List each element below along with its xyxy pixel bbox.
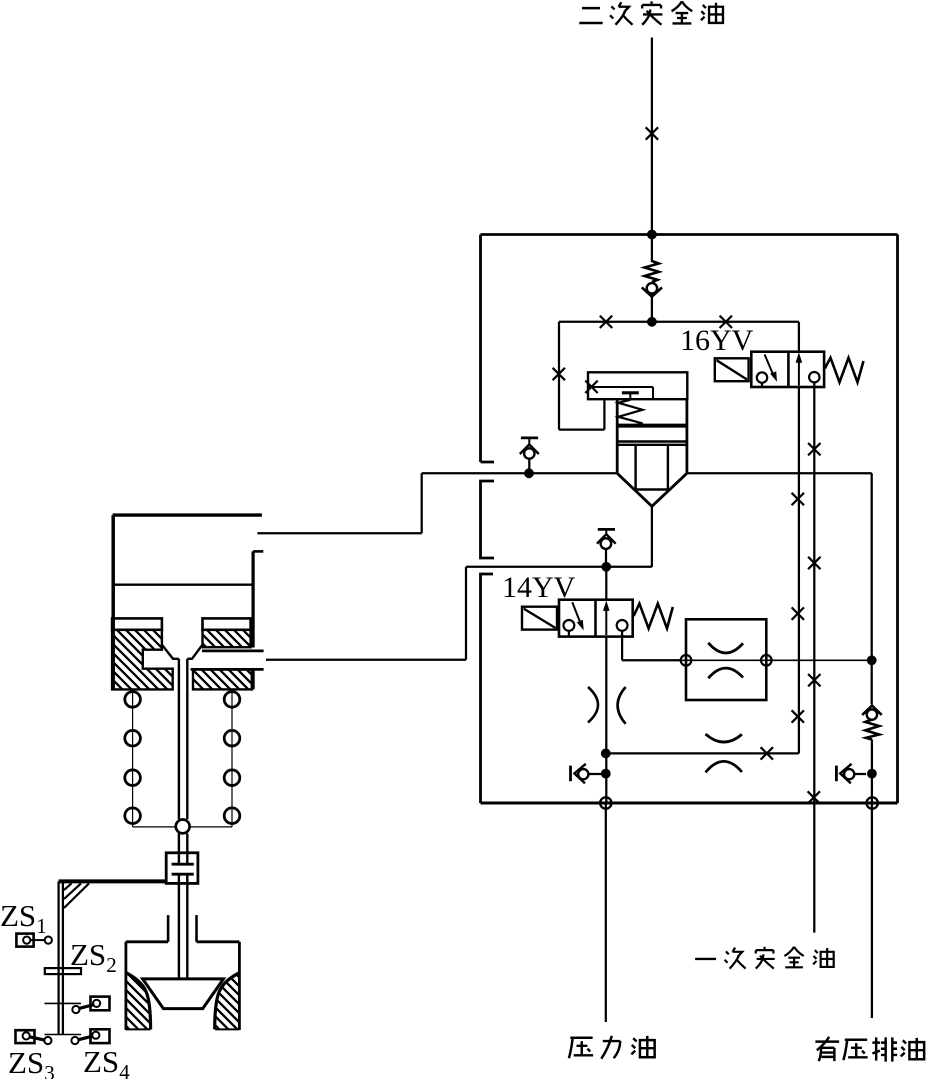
piston rod below guide piston: [179, 874, 187, 979]
piston hatched block right upper: [203, 630, 251, 647]
limit switch ZS4 roller: [92, 1032, 99, 1039]
closed port X b1: [808, 443, 820, 455]
servomotor right wall tick: [253, 550, 263, 553]
piston rod lower: [179, 834, 187, 865]
node junction lower header: [601, 562, 611, 572]
test point TP3 seat: [574, 764, 585, 784]
test point TP1 stem: [528, 438, 530, 444]
main valve body left wall: [616, 399, 619, 473]
damping orifice upper arc: [706, 734, 742, 742]
wire CV1 to pilot header: [651, 297, 653, 322]
test point TP1 seat: [520, 445, 539, 455]
wire right drain riser: [871, 473, 873, 704]
rod guide piston top bar: [172, 863, 194, 866]
piston hatched block right lower: [193, 669, 252, 689]
node junction at right drain riser: [867, 655, 877, 665]
relief check valve spring: [865, 720, 879, 740]
wire pressure oil down: [605, 803, 607, 1022]
striker tick bottom: [45, 1034, 82, 1036]
cylinder lower pipe: [266, 567, 652, 660]
closed port X a2: [792, 607, 804, 619]
servomotor right wall upper: [252, 551, 255, 647]
test point TP1 bar: [521, 436, 538, 439]
test point TP2 ball: [601, 538, 612, 549]
valve body 14YV: [559, 600, 633, 637]
spring coils right: [224, 692, 240, 824]
distributor plug: [143, 979, 224, 1009]
pilot valve spring seat T-bar: [622, 391, 639, 394]
svg-text:16YV: 16YV: [680, 324, 754, 357]
16YV right position arrow: [796, 352, 803, 385]
closed port X a3: [792, 710, 804, 722]
limit switch ZS1 body: [16, 934, 33, 947]
piston hatched block left: [112, 630, 173, 690]
striker tick middle: [45, 1002, 82, 1004]
16YV return spring: [825, 358, 864, 383]
spring guide wire left: [132, 689, 134, 827]
limit switch ZS1 tip roller: [45, 937, 52, 944]
label 压力油 (pressure oil): [569, 1036, 655, 1059]
16YV right position seat ball: [809, 372, 819, 382]
wire lower header to 14YV: [605, 567, 607, 600]
orifice lower arc: [708, 668, 743, 678]
servomotor top plate: [113, 513, 262, 516]
node junction damping branch: [601, 749, 611, 759]
wire node to check valve spring: [651, 235, 653, 263]
test point TP4 wire: [854, 773, 866, 775]
wire 16YV port A down: [798, 387, 800, 753]
spring coils left: [125, 692, 141, 824]
limit switch ZS3 roller: [23, 1032, 30, 1039]
wire secondary safety oil feed down: [651, 38, 653, 235]
test point TP1 wire: [528, 459, 530, 474]
bulkhead circle drain: [867, 797, 878, 808]
16YV left position seat ball: [757, 372, 767, 382]
distributor hatch bottom left: [126, 1028, 151, 1030]
orifice box through wire: [680, 659, 871, 661]
enclosure box left edge upper segment: [481, 235, 495, 463]
port channel upper line: [202, 650, 264, 653]
enclosure box bottom edge: [481, 802, 898, 805]
bulkhead circle pressure oil: [600, 797, 611, 808]
limit switch ZS3 tip roller: [44, 1037, 51, 1044]
port channel lower line: [191, 668, 264, 671]
distributor outer wall left: [125, 942, 128, 1030]
funnel left wall: [162, 645, 179, 659]
valve body 16YV: [751, 352, 824, 387]
limit switch ZS3 lever: [30, 1037, 46, 1040]
test point TP3 bar: [569, 766, 572, 782]
svg-text:ZS4: ZS4: [83, 1044, 130, 1079]
wire cone to lower header: [651, 506, 653, 567]
distributor seat curve left: [126, 973, 150, 1030]
label 一次安全油 (primary safety oil): [695, 947, 834, 969]
test point TP1 ball: [524, 448, 534, 458]
wire primary safety oil stub below box: [813, 803, 815, 933]
main valve piston band: [617, 424, 687, 428]
closed port X on feed wire: [646, 127, 658, 139]
distributor ledge right: [197, 940, 240, 943]
distributor ledge left: [126, 940, 168, 943]
test point TP3 ball: [578, 769, 588, 779]
distributor seat curve right: [215, 973, 239, 1030]
enclosure box top edge: [481, 233, 898, 236]
closed port X a1: [792, 493, 804, 505]
14YV right position seat ball: [617, 620, 628, 631]
piston rod upper: [179, 659, 187, 820]
main valve body right wall: [686, 399, 689, 473]
linkage ball joint: [176, 820, 190, 834]
enclosure box left edge lower segment: [481, 574, 494, 803]
orifice upper arc: [708, 643, 743, 653]
orifice left port circle: [681, 655, 692, 666]
closed port X b3: [808, 674, 820, 686]
node junction test point right: [867, 769, 877, 779]
14YV right position port stub: [621, 631, 623, 637]
cylinder upper pipe: [257, 473, 421, 533]
wire 16YV port B down: [813, 387, 815, 803]
enclosure box left edge bracket segment: [481, 481, 495, 558]
test point TP2 wire: [605, 549, 607, 567]
test point TP2 stem: [605, 529, 607, 534]
feedback lever: [59, 879, 167, 883]
pilot valve spring seat stem: [629, 393, 631, 399]
limit switch ZS4 tip roller: [71, 1037, 78, 1044]
pilot valve spring: [618, 400, 642, 426]
upper cross wire right part: [687, 472, 872, 474]
limit switch mid body: [91, 997, 110, 1011]
test point TP2 seat: [597, 534, 616, 544]
upper cross wire left part: [422, 472, 618, 474]
pilot valve top housing rectangle: [588, 372, 687, 399]
rod guide piston bottom bar: [172, 873, 194, 876]
label 有压排油 (pressurized drain): [815, 1037, 924, 1062]
node junction test point left: [601, 769, 611, 779]
limit switch mid roller: [93, 1000, 100, 1007]
test point TP2 bar: [598, 528, 615, 531]
limit switch ZS4 lever: [78, 1036, 93, 1040]
closed port X on header left: [600, 316, 612, 328]
wire relief to drain: [871, 740, 873, 1019]
spring of check valve CV1: [645, 261, 659, 282]
distributor seat hatch left: [126, 975, 150, 1030]
closed port X b4: [808, 791, 820, 803]
14YV return spring: [634, 604, 673, 629]
limit switch ZS3 body: [16, 1030, 35, 1043]
test point TP4 ball: [844, 769, 854, 779]
test point TP4 seat: [840, 764, 851, 784]
wire 14YV port B to orifice box: [622, 637, 680, 661]
enclosure box right edge: [896, 235, 899, 804]
pilot branch wire down-left: [559, 322, 604, 430]
svg-text:ZS3: ZS3: [8, 1045, 55, 1079]
14YV right position arrow: [603, 601, 610, 636]
main valve body line 2: [617, 444, 687, 446]
test point TP4 bar: [835, 766, 838, 782]
relief check valve ball: [867, 709, 877, 719]
piston crown left: [112, 618, 162, 629]
lever corner gusset hatch: [64, 883, 89, 908]
distributor cage wall right: [195, 915, 198, 942]
solenoid coil of 16YV: [715, 358, 749, 381]
14YV left position seat ball: [564, 620, 575, 631]
throttle gap arcs on port A wire: [588, 687, 626, 724]
funnel right wall: [187, 645, 202, 659]
main valve body line 1: [617, 440, 687, 442]
servomotor right wall lower: [252, 669, 255, 689]
rod guide block: [166, 853, 198, 884]
node junction at box top: [647, 230, 657, 240]
spring guide wire right: [231, 689, 233, 827]
relief check valve seat: [862, 706, 882, 715]
pilot header wire: [559, 321, 799, 323]
solenoid coil of 14YV: [522, 607, 557, 630]
distributor outer wall right: [238, 942, 241, 1030]
closed port X on header right: [720, 316, 732, 328]
main valve cone: [617, 473, 687, 506]
14YV left position arrow: [572, 602, 583, 630]
orifice right port circle: [761, 655, 772, 666]
servomotor left wall: [111, 515, 115, 689]
feedback rod column: [59, 881, 63, 1034]
closed port X at pilot valve inlet: [585, 381, 597, 393]
piston crown right: [203, 618, 251, 629]
wire 14YV port A down: [605, 637, 607, 803]
node junction on pilot header: [647, 317, 657, 327]
distributor seat hatch right: [215, 975, 240, 1030]
distributor cage wall left: [167, 915, 170, 942]
wire header to 16YV: [798, 322, 800, 352]
closed port X b2: [808, 557, 820, 569]
striker plate ZS2: [45, 968, 81, 974]
closed port X on damping branch: [761, 747, 773, 759]
spring seat wire bottom: [133, 826, 232, 828]
14YV left position port stub: [568, 631, 570, 637]
16YV right position port stub: [813, 382, 815, 387]
16YV left position arrow: [765, 355, 777, 382]
wire damping branch: [606, 752, 799, 754]
main valve inner sleeve: [636, 445, 668, 490]
ball of check valve CV1: [647, 283, 657, 293]
damping orifice lower arc: [706, 761, 742, 772]
limit switch ZS1 roller: [23, 937, 30, 944]
limit switch ZS4 body: [91, 1029, 110, 1043]
pilot valve housing divider: [588, 387, 653, 399]
limit switch mid lever: [79, 1005, 95, 1009]
seat of check valve CV1: [642, 287, 662, 296]
label 二次安全油 (secondary safety oil): [579, 1, 723, 24]
closed port X on pilot branch: [553, 368, 565, 380]
orifice box housing: [686, 619, 766, 700]
limit switch ZS1 lever: [30, 939, 45, 941]
limit switch mid pivot roller: [72, 1006, 79, 1013]
16YV left position port stub: [761, 383, 763, 387]
test point TP3 wire: [588, 773, 601, 775]
oil level line: [113, 584, 253, 586]
distributor hatch bottom right: [215, 1028, 239, 1030]
svg-text:ZS1: ZS1: [0, 898, 47, 938]
svg-text:ZS2: ZS2: [70, 937, 117, 977]
node junction on upper cross wire: [524, 468, 534, 478]
